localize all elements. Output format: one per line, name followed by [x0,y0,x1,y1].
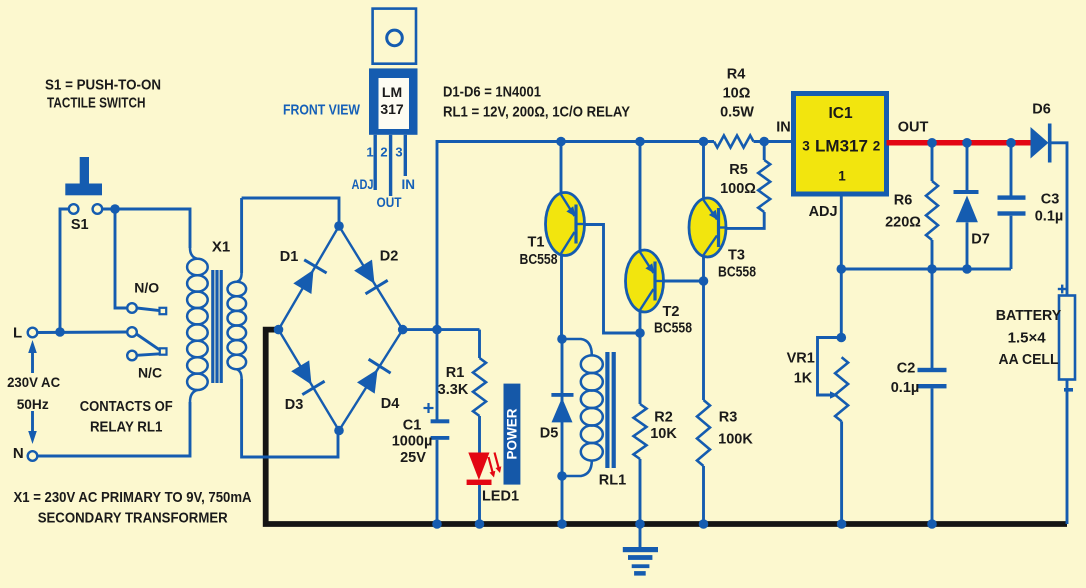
svg-text:317: 317 [380,101,404,117]
svg-text:3.3K: 3.3K [438,382,469,398]
svg-text:0.1µ: 0.1µ [1035,209,1064,225]
svg-text:220Ω: 220Ω [885,215,921,231]
svg-text:SECONDARY TRANSFORMER: SECONDARY TRANSFORMER [38,510,228,527]
svg-text:1: 1 [366,145,373,160]
svg-text:T2: T2 [663,304,680,320]
svg-text:IN: IN [776,120,791,136]
svg-text:BATTERY: BATTERY [996,308,1062,324]
svg-text:FRONT VIEW: FRONT VIEW [283,102,361,119]
svg-text:3: 3 [802,139,810,154]
svg-text:TACTILE SWITCH: TACTILE SWITCH [47,95,146,112]
svg-text:3: 3 [395,145,402,160]
svg-text:ADJ: ADJ [352,177,374,192]
svg-text:1000µ: 1000µ [392,434,433,450]
svg-text:100K: 100K [718,432,753,448]
svg-text:2: 2 [380,145,387,160]
svg-text:IC1: IC1 [828,105,853,122]
svg-text:10K: 10K [650,426,677,442]
svg-text:D3: D3 [285,397,304,413]
svg-text:X1 = 230V AC PRIMARY TO 9V, 75: X1 = 230V AC PRIMARY TO 9V, 750mA [14,489,252,506]
svg-text:C1: C1 [403,418,422,434]
svg-text:N: N [13,445,24,462]
svg-text:D2: D2 [380,249,399,265]
svg-text:C3: C3 [1041,192,1060,208]
svg-text:R1: R1 [446,365,465,381]
svg-text:100Ω: 100Ω [720,181,756,197]
svg-text:T1: T1 [528,235,545,251]
svg-text:OUT: OUT [377,195,403,210]
svg-text:CONTACTS OF: CONTACTS OF [80,399,173,415]
svg-text:RELAY RL1: RELAY RL1 [90,419,163,435]
svg-text:RL1: RL1 [599,473,626,489]
svg-text:ADJ: ADJ [809,204,838,220]
svg-text:VR1: VR1 [787,350,815,366]
svg-text:R5: R5 [729,162,748,178]
svg-text:AA CELL: AA CELL [999,352,1059,368]
svg-text:230V AC: 230V AC [7,374,60,390]
svg-text:1: 1 [838,169,846,184]
svg-text:BC558: BC558 [520,252,558,268]
svg-text:1.5×4: 1.5×4 [1008,331,1046,347]
svg-text:10Ω: 10Ω [723,86,751,102]
svg-text:R2: R2 [654,410,673,426]
svg-text:50Hz: 50Hz [17,396,49,412]
svg-text:RL1 = 12V, 200Ω, 1C/O RELAY: RL1 = 12V, 200Ω, 1C/O RELAY [443,104,630,121]
svg-text:BC558: BC558 [654,321,692,337]
svg-text:1K: 1K [794,370,813,386]
svg-text:R4: R4 [727,67,746,83]
svg-text:C2: C2 [897,360,916,376]
svg-text:0.1µ: 0.1µ [891,380,920,396]
svg-text:BC558: BC558 [718,265,756,281]
svg-text:POWER: POWER [505,408,520,459]
svg-text:S1 = PUSH-TO-ON: S1 = PUSH-TO-ON [45,77,161,94]
svg-text:D7: D7 [971,231,990,247]
svg-text:R6: R6 [894,193,913,209]
svg-text:2: 2 [873,139,881,154]
svg-text:D1: D1 [280,249,299,265]
svg-text:X1: X1 [212,239,230,256]
svg-text:LED1: LED1 [482,489,519,505]
svg-text:LM: LM [382,84,402,100]
svg-text:R3: R3 [719,410,738,426]
svg-text:D4: D4 [381,396,400,412]
svg-text:OUT: OUT [898,120,929,136]
svg-text:LM317: LM317 [815,137,868,156]
svg-text:D1-D6 = 1N4001: D1-D6 = 1N4001 [443,84,541,101]
svg-text:T3: T3 [728,248,745,264]
svg-text:0.5W: 0.5W [720,105,754,121]
svg-text:D5: D5 [540,426,559,442]
svg-text:N/C: N/C [138,365,162,381]
svg-text:IN: IN [402,177,416,192]
svg-text:N/O: N/O [134,280,159,296]
svg-text:L: L [13,325,22,342]
svg-text:S1: S1 [71,217,89,233]
svg-text:D6: D6 [1032,102,1051,118]
svg-text:25V: 25V [400,450,426,466]
